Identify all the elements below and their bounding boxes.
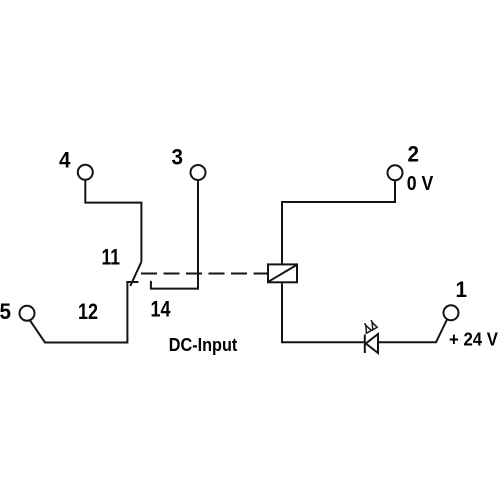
terminal 4 — [78, 165, 93, 180]
contact 12 bar — [126, 281, 138, 283]
terminal 3 — [191, 165, 206, 180]
actuator dashed line — [141, 273, 268, 275]
LED cathode bar — [364, 335, 366, 354]
svg-text:14: 14 — [151, 297, 172, 322]
wire relay coil to LED — [282, 283, 364, 342]
terminal 1 — [444, 305, 459, 320]
LED triangle — [366, 334, 378, 353]
svg-text:5: 5 — [0, 299, 11, 324]
switch blade 11 — [130, 262, 141, 286]
svg-text:4: 4 — [59, 148, 71, 173]
wire terminal 2 to relay coil — [282, 181, 395, 264]
svg-text:+ 24 V: + 24 V — [449, 329, 499, 350]
wire contact 12 to terminal 5 — [29, 282, 127, 343]
svg-text:12: 12 — [78, 299, 98, 324]
svg-text:2: 2 — [408, 142, 420, 167]
wire terminal 4 to contact 11 — [85, 180, 141, 262]
LED emission arrow b — [372, 322, 377, 330]
wire LED to terminal 1 — [378, 320, 447, 343]
svg-text:3: 3 — [172, 145, 184, 170]
relay coil K1 — [268, 264, 297, 282]
LED emission arrow a — [366, 326, 372, 334]
svg-text:1: 1 — [456, 277, 468, 302]
wire terminal 3 to contact 14 — [151, 180, 198, 289]
svg-text:11: 11 — [102, 245, 121, 270]
svg-text:0 V: 0 V — [407, 173, 434, 195]
terminal 5 — [20, 306, 35, 321]
svg-text:DC-Input: DC-Input — [169, 335, 238, 355]
terminal 2 — [388, 165, 403, 180]
